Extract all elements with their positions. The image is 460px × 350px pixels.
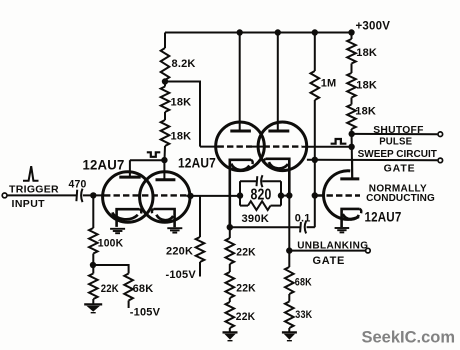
junction bus/box left bbox=[237, 192, 243, 198]
svg-text:0.1: 0.1 bbox=[295, 212, 311, 224]
wire to C 0.1 bbox=[230, 226, 300, 228]
wire shutoff pulse out bbox=[352, 133, 438, 135]
wire bbox=[164, 80, 166, 87]
negative pulse waveform glyph bbox=[147, 152, 161, 157]
ground V3 cathode bbox=[335, 228, 350, 232]
box left edge bbox=[239, 181, 241, 205]
wire bbox=[351, 98, 353, 105]
ground 22K chain bbox=[223, 332, 238, 340]
V2a heater arc bbox=[231, 164, 249, 170]
box right edge bbox=[280, 181, 282, 205]
svg-text:18K: 18K bbox=[355, 106, 376, 118]
V3 heater arc bbox=[343, 214, 359, 219]
wire divider to V3 plate bbox=[351, 129, 354, 179]
V3 grid dashed bbox=[317, 194, 360, 196]
junction rail/R 1M bbox=[312, 29, 318, 35]
resistor 100K bbox=[89, 228, 98, 254]
wire bbox=[351, 33, 353, 40]
resistor 18K (upper left) bbox=[161, 87, 170, 113]
svg-text:100K: 100K bbox=[98, 237, 124, 249]
V1a cathode hook bbox=[140, 209, 142, 213]
wire V2b grid to divider tap bbox=[302, 146, 352, 148]
trigger pulse waveform glyph bbox=[23, 166, 39, 181]
resistor 33K bbox=[285, 302, 294, 329]
wire to V2a grid bbox=[200, 146, 218, 148]
wire 68K to -105V bbox=[128, 301, 130, 309]
wire to ground bbox=[229, 328, 231, 332]
svg-text:INPUT: INPUT bbox=[12, 198, 46, 210]
svg-text:GATE: GATE bbox=[313, 255, 346, 267]
ground 22K left bbox=[84, 304, 102, 312]
svg-text:1M: 1M bbox=[321, 77, 337, 89]
terminal shutoff pulse bbox=[438, 132, 443, 137]
svg-text:18K: 18K bbox=[171, 97, 192, 109]
wire cap to V1 grid bbox=[83, 194, 104, 196]
V2b heater arc bbox=[269, 162, 288, 168]
V2b plate lead bbox=[277, 33, 279, 130]
svg-text:+300V: +300V bbox=[356, 20, 391, 32]
V1a cathode bar+lead bbox=[117, 209, 140, 227]
svg-text:820: 820 bbox=[251, 187, 272, 204]
V3 cathode bar+lead bbox=[342, 209, 360, 227]
V1a heater arc bbox=[112, 212, 137, 219]
wire rail to 1M bbox=[314, 33, 316, 72]
resistor 1M bbox=[311, 71, 320, 100]
resistor 220K bbox=[196, 237, 205, 262]
junction V2b grid tap bbox=[348, 144, 354, 150]
wire bbox=[92, 254, 94, 274]
V2a cathode bar+lead bbox=[230, 160, 251, 227]
wire between grids bbox=[252, 146, 264, 148]
svg-text:22K: 22K bbox=[236, 246, 256, 258]
V1b cathode bar+lead bbox=[154, 209, 175, 227]
svg-text:220K: 220K bbox=[166, 246, 193, 258]
V2b grid dashed bbox=[264, 145, 303, 147]
V2b cathode hook bbox=[264, 159, 266, 163]
resistor 68K (right) bbox=[285, 267, 294, 294]
svg-text:GATE: GATE bbox=[384, 162, 416, 174]
V1b heater arc bbox=[156, 215, 173, 220]
wire to ground bbox=[92, 299, 94, 304]
resistor 22K #2 bbox=[226, 272, 235, 298]
svg-text:390K: 390K bbox=[242, 213, 270, 225]
resistor 18K #1 bbox=[347, 39, 356, 64]
junction 8.2K/18K bbox=[162, 78, 168, 84]
V2a cathode hook bbox=[251, 160, 253, 164]
wire trigger to C 470 bbox=[7, 194, 76, 196]
junction bus end/V2b cathode bbox=[286, 192, 292, 198]
svg-text:18K: 18K bbox=[356, 79, 377, 91]
resistor 22K #3 bbox=[226, 302, 235, 328]
svg-text:PULSE: PULSE bbox=[379, 136, 412, 148]
svg-text:-105V: -105V bbox=[166, 269, 197, 281]
junction rail/V2b plate bbox=[275, 29, 281, 35]
V1b plate bar bbox=[156, 178, 176, 181]
wire V1a plate to node bbox=[130, 159, 165, 161]
box top left bbox=[240, 180, 257, 182]
wire grid to 100K bbox=[92, 195, 94, 228]
svg-text:68K: 68K bbox=[133, 283, 154, 295]
wire B sweep gate out bbox=[307, 159, 438, 161]
junction rail end/18K chain bbox=[348, 29, 354, 35]
V2a plate lead bbox=[239, 33, 241, 130]
svg-text:-105V: -105V bbox=[130, 306, 161, 318]
junction shutoff tap bbox=[349, 131, 355, 137]
V1b top lead bbox=[163, 160, 165, 179]
tube V2 envelope circle B bbox=[258, 122, 307, 171]
resistor 8.2K bbox=[161, 48, 170, 80]
box top right bbox=[262, 180, 281, 182]
terminal trigger input bbox=[2, 193, 7, 198]
wire bbox=[288, 251, 290, 267]
positive pulse waveform glyph bbox=[331, 139, 347, 144]
tube V3 envelope arc bbox=[324, 171, 359, 220]
svg-text:12AU7: 12AU7 bbox=[365, 210, 402, 225]
svg-text:18K: 18K bbox=[356, 47, 377, 59]
junction unblanking bbox=[286, 247, 292, 253]
ground 33K bbox=[282, 332, 297, 340]
svg-text:12AU7: 12AU7 bbox=[178, 155, 216, 170]
box bottom right bbox=[271, 205, 282, 207]
junction plate node/18K chain bbox=[161, 157, 167, 163]
svg-text:470: 470 bbox=[69, 179, 87, 191]
V3 plate bar bbox=[340, 177, 359, 180]
V3 plate lead bbox=[351, 160, 353, 179]
wire bbox=[229, 264, 231, 272]
resistor 22K #1 bbox=[226, 238, 235, 264]
svg-text:CONDUCTING: CONDUCTING bbox=[366, 193, 435, 204]
junction bus/tube edge bbox=[187, 193, 193, 199]
svg-text:SWEEP CIRCUIT: SWEEP CIRCUIT bbox=[358, 149, 437, 160]
svg-text:SeekIC.com: SeekIC.com bbox=[362, 329, 456, 347]
ground V1a cathode bbox=[110, 229, 125, 233]
capacitor 470 bbox=[76, 189, 82, 203]
junction 0.1 tap bbox=[227, 224, 233, 230]
wire bus to 220K bbox=[199, 196, 201, 237]
wire bbox=[229, 227, 231, 238]
box bottom left bbox=[240, 205, 248, 207]
V1 grid dashed line bbox=[104, 194, 187, 196]
svg-text:33K: 33K bbox=[295, 309, 312, 321]
capacitor 0.1 bbox=[300, 221, 306, 234]
wire junction to 68K bbox=[93, 265, 129, 274]
junction rail/V2a plate bbox=[237, 29, 243, 35]
wire unblanking gate bbox=[289, 250, 365, 252]
tube V1 envelope circle A bbox=[103, 172, 153, 222]
svg-text:UNBLANKING: UNBLANKING bbox=[297, 240, 368, 251]
V2a grid dashed bbox=[218, 145, 253, 147]
resistor 18K #3 bbox=[347, 105, 356, 130]
svg-text:SHUTOFF: SHUTOFF bbox=[373, 125, 424, 136]
svg-text:68K: 68K bbox=[295, 277, 312, 289]
wire 1M to 0.1 corner bbox=[314, 100, 316, 227]
V3 cathode hook bbox=[360, 209, 362, 213]
tube V2 envelope circle A bbox=[216, 122, 265, 171]
wire bbox=[229, 298, 231, 302]
junction grid V3 bbox=[312, 192, 318, 198]
wire 8.2K junction to V2a grid bbox=[165, 82, 200, 147]
svg-text:22K: 22K bbox=[236, 283, 256, 295]
svg-text:22K: 22K bbox=[101, 283, 119, 295]
V2b plate bar bbox=[268, 130, 289, 133]
resistor 18K (lower left) bbox=[161, 120, 170, 146]
wire to ground bbox=[288, 328, 290, 332]
resistor 68K (left) bbox=[124, 274, 133, 301]
wire bbox=[351, 64, 353, 74]
V1b cathode hook bbox=[152, 209, 154, 213]
junction bus/box right bbox=[278, 192, 284, 198]
V1a plate bar bbox=[119, 176, 140, 179]
terminal sweep gate bbox=[438, 158, 443, 163]
wire box to cathode column bbox=[281, 195, 289, 197]
wire rail to R 8.2K bbox=[164, 33, 166, 49]
V1a plate lead bbox=[129, 160, 131, 177]
tube V1 envelope circle B bbox=[140, 172, 190, 222]
wire C 0.1 to grid column bbox=[307, 226, 315, 228]
svg-text:22K: 22K bbox=[236, 311, 256, 323]
svg-text:TRIGGER: TRIGGER bbox=[9, 184, 59, 196]
V2a plate bar bbox=[230, 130, 251, 133]
wire: +300V rail bbox=[165, 32, 354, 34]
V2b cathode bar+lead bbox=[266, 159, 290, 196]
resistor 390K bbox=[248, 201, 271, 210]
resistor 22K (left) bbox=[89, 274, 98, 300]
junction grid/100K bbox=[90, 192, 96, 198]
V2b cathode to unblanking node bbox=[288, 196, 290, 251]
svg-text:18K: 18K bbox=[171, 131, 192, 143]
ground V1b cathode bbox=[167, 228, 182, 232]
wire 220K to -105V bbox=[199, 262, 201, 277]
junction 1M/wire B bbox=[312, 157, 318, 163]
wire V1b grid to 820 box bbox=[187, 195, 241, 197]
wire 18K to plate node bbox=[164, 146, 167, 160]
capacitor 820 bbox=[257, 175, 263, 187]
svg-text:8.2K: 8.2K bbox=[172, 58, 196, 70]
junction 100K/22K/68K bbox=[90, 262, 96, 268]
wire bbox=[164, 112, 166, 120]
svg-text:12AU7: 12AU7 bbox=[83, 158, 125, 173]
wire bbox=[288, 294, 290, 302]
terminal unblanking gate bbox=[366, 248, 371, 253]
resistor 18K #2 bbox=[347, 73, 356, 98]
